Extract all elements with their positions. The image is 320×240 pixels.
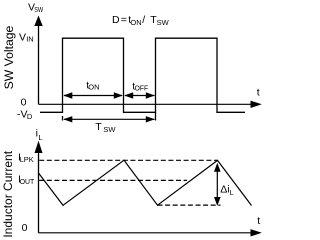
svg-text:VIN: VIN [19,32,34,44]
svg-text:ILPK: ILPK [18,152,34,165]
svg-text:TSW: TSW [95,121,116,134]
svg-text:ΔiL: ΔiL [220,184,234,197]
svg-text:SW Voltage: SW Voltage [2,25,16,89]
svg-text:t: t [257,215,260,227]
svg-text:0: 0 [21,97,27,109]
y-axis arrowhead top graph [34,16,42,27]
T_SW measure arrow [64,118,155,120]
svg-text:Inductor Current: Inductor Current [1,150,15,237]
SW voltage square wave [40,38,245,112]
y-axis i_L [38,150,40,233]
svg-text:-VD: -VD [17,108,33,120]
t-axis (SW voltage 0 line) [39,103,252,105]
I_LPK dashed level line [39,159,217,161]
svg-text:IOUT: IOUT [18,174,35,186]
I_OUT dashed level line [39,179,187,181]
y-axis arrowhead bottom graph [35,141,43,153]
tick extension below rising edge 1 [62,116,64,121]
t-axis arrowhead top graph [251,101,262,108]
svg-text:D=tON/TSW: D=tON/TSW [112,14,170,27]
t-axis bottom graph [39,232,252,234]
valley dashed level line [158,204,221,206]
svg-text:tOFF: tOFF [132,81,148,92]
delta iL measure arrow [216,168,218,200]
t_ON measure arrow [64,95,122,97]
inductor current triangle wave [39,160,252,205]
svg-text:t: t [257,87,260,99]
tick extension below rising edge 2 [155,112,157,120]
svg-text:tON: tON [86,81,99,92]
svg-text:0: 0 [22,222,28,234]
t_OFF measure arrow [125,95,155,97]
svg-text:VSW: VSW [28,1,44,14]
y-axis V_SW [38,24,40,104]
t-axis arrowhead bottom graph [251,229,262,236]
svg-text:iL: iL [36,128,43,143]
